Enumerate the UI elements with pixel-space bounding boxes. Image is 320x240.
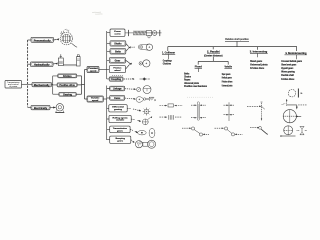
- svg-text:Worm gearing: Worm gearing: [281, 72, 295, 74]
- svg-text:Universal joints: Universal joints: [184, 82, 200, 85]
- svg-text:Ropes: Ropes: [184, 80, 191, 82]
- node list variable: [222, 74, 233, 88]
- wire dash b11 to ellipse icon: [130, 129, 138, 132]
- icon linkage crank: [137, 86, 151, 94]
- icon branch3 intersecting shafts: [247, 102, 265, 120]
- svg-text:Gear: Gear: [115, 60, 121, 63]
- svg-text:Helical gears: Helical gears: [222, 78, 232, 80]
- box b11 Transmission gears: [110, 126, 130, 133]
- svg-text:variable: variable: [116, 120, 125, 122]
- svg-text:Pneumatically: Pneumatically: [34, 39, 51, 42]
- box b9 Differential gearing: [109, 105, 127, 112]
- svg-text:Hypoid gears: Hypoid gears: [281, 68, 294, 70]
- icon A2 clutch: [159, 115, 182, 120]
- svg-text:gears: gears: [117, 130, 124, 132]
- box b12 Bumping gears: [110, 136, 131, 143]
- wire trunkB stubs: [107, 89, 110, 140]
- svg-text:Friction: Friction: [63, 75, 72, 78]
- box b3 Belts: [110, 49, 126, 54]
- svg-text:Clutches: Clutches: [163, 63, 172, 66]
- box Friction: [58, 74, 77, 78]
- box Electrically: [31, 105, 50, 110]
- box root Transmission and control of power: [5, 81, 22, 89]
- box b7 Linkage: [110, 86, 125, 91]
- svg-text:Friction drives: Friction drives: [281, 78, 295, 81]
- node label 4. Nonintersecting: [285, 52, 307, 55]
- box b5 Friction wheel: [109, 66, 125, 73]
- wire drop branch2: [212, 47, 214, 50]
- icon cam and follower: [136, 97, 154, 103]
- svg-text:Universal joints: Universal joints: [250, 63, 268, 66]
- wire branch2 split: [198, 57, 228, 65]
- svg-text:Chains: Chains: [184, 77, 192, 79]
- wire trunk to electrically: [28, 106, 31, 108]
- node label 2. Parallel: [204, 50, 223, 57]
- node list branch1: [163, 60, 173, 66]
- svg-text:Flexible shaft: Flexible shaft: [281, 74, 294, 77]
- svg-text:Friction drives: Friction drives: [222, 81, 233, 84]
- node label Variable: [224, 66, 232, 69]
- wire trunk to pneumatically: [28, 39, 31, 41]
- box b8 Cams: [110, 96, 125, 101]
- icon D3 worm and crossed helical: [280, 126, 307, 137]
- svg-text:Cams: Cams: [114, 98, 121, 100]
- svg-text:wheel: wheel: [114, 70, 120, 72]
- node label 3. Intersecting: [250, 51, 268, 54]
- box Hydraulically: [31, 62, 54, 67]
- icon electric motor: [55, 104, 64, 113]
- wire trunkA: [106, 31, 108, 79]
- svg-text:Belts: Belts: [115, 51, 122, 54]
- box b1 Power screw: [110, 29, 125, 36]
- svg-text:Mechanically: Mechanically: [34, 84, 50, 87]
- svg-text:Friction discs: Friction discs: [250, 67, 265, 70]
- node list branch4: [281, 61, 302, 81]
- box b6 Coupling: [109, 77, 123, 81]
- svg-text:gears: gears: [117, 140, 124, 142]
- svg-text:(Center distance): (Center distance): [204, 54, 223, 57]
- svg-text:Fixed: Fixed: [195, 66, 203, 69]
- wire trunk to hydraulically: [28, 63, 31, 65]
- box Variable speed: [87, 96, 103, 102]
- icon C1 parallel shafts line: [224, 102, 235, 121]
- icon belt drive: [138, 44, 152, 50]
- svg-text:speed: speed: [92, 100, 99, 102]
- wire drop branch1: [167, 47, 169, 51]
- wire root to trunk: [22, 83, 33, 85]
- icon geneva mechanism: [135, 140, 155, 148]
- box Mechanically: [32, 82, 52, 87]
- icon hydraulic cylinders: [58, 54, 80, 66]
- icon elliptical gears: [138, 128, 155, 137]
- icon B1 parallel shafts capsule: [191, 102, 206, 120]
- svg-text:Linkage: Linkage: [113, 89, 122, 91]
- wire dash b8 to cam icon: [125, 98, 136, 99]
- wire dash b7 to linkage icon: [125, 89, 136, 90]
- wire electrically to motor icon: [50, 107, 55, 108]
- wire b4 b5 merge arrow: [126, 60, 132, 69]
- icon D1 circle and bar: [288, 89, 302, 98]
- svg-text:Universal joints: Universal joints: [222, 84, 233, 87]
- wire drop branch3: [257, 47, 259, 50]
- wire mechanically bracket right: [76, 70, 87, 100]
- svg-text:Skew bevel gears: Skew bevel gears: [281, 64, 297, 66]
- svg-text:Hydraulically: Hydraulically: [34, 64, 50, 67]
- wire dash b10 to variator icon: [131, 119, 141, 122]
- wire title drop: [236, 41, 238, 46]
- icon A1 coupling rigid: [159, 104, 182, 107]
- icon D2 worm wheel: [282, 99, 307, 123]
- svg-text:Bevel gears: Bevel gears: [250, 61, 263, 63]
- icon power screw: [125, 30, 162, 38]
- node list branch3: [250, 61, 268, 70]
- icon link1 universal joint: [182, 127, 209, 136]
- icon variator circle with arrow: [142, 117, 152, 125]
- wire drop branch4: [295, 47, 297, 51]
- wire dash b12 to geneva icon: [131, 140, 135, 143]
- box Gearing: [59, 92, 76, 96]
- svg-text:4. Nonintersecting: 4. Nonintersecting: [285, 52, 307, 55]
- box Pneumatically: [31, 37, 54, 42]
- svg-text:gearing: gearing: [114, 109, 123, 111]
- box b2 Shafts: [110, 41, 126, 46]
- wire constant speed to trunkA: [99, 69, 107, 71]
- box Positive drive: [57, 83, 77, 87]
- wire dash b9 to star icon: [127, 108, 141, 111]
- dashes above b6: [112, 75, 123, 77]
- wire hydraulically to cylinder icon: [53, 63, 57, 64]
- svg-text:Variable: Variable: [225, 66, 233, 69]
- wire dash to belt icon: [132, 46, 136, 48]
- wire fixed stub: [197, 68, 199, 72]
- wire variable speed to trunkB: [103, 98, 106, 100]
- svg-text:Positive drive: Positive drive: [59, 84, 75, 87]
- node list fixed: [184, 72, 208, 88]
- icon coupling: [140, 78, 151, 81]
- wire dash b6 to coupling icon: [124, 79, 135, 80]
- icon pneumatic fan: [60, 29, 77, 47]
- box b4 Gear: [109, 58, 125, 63]
- wire trunk vertical dashed: [27, 40, 29, 107]
- svg-text:Shafts: Shafts: [114, 43, 122, 46]
- svg-text:Crossed helical gears: Crossed helical gears: [281, 61, 302, 63]
- wire trunkB: [106, 86, 108, 141]
- box Constant speed: [87, 67, 99, 73]
- node title Relative shaft position: [225, 38, 249, 42]
- svg-text:Spur gears: Spur gears: [222, 74, 231, 76]
- wire pneumatically to fan icon: [54, 39, 59, 40]
- wire branch4 stub: [295, 55, 297, 60]
- smudge top: [92, 12, 103, 14]
- wire b2 b3 merge arrow: [126, 44, 131, 52]
- box b10 Rolling contact variable: [109, 115, 131, 122]
- svg-text:screw: screw: [114, 33, 121, 35]
- svg-text:Coupling: Coupling: [111, 79, 122, 81]
- svg-text:Gearing: Gearing: [63, 93, 73, 96]
- wire mechanically bracket left: [52, 76, 59, 94]
- wire tree main line: [168, 46, 297, 48]
- svg-text:Relative shaft position: Relative shaft position: [225, 38, 249, 41]
- node label 1. Collinear: [162, 52, 175, 55]
- node label Fixed: [195, 66, 203, 69]
- speck row: [187, 96, 214, 98]
- icon gear pair: [139, 60, 150, 67]
- wire branch3 stub: [257, 53, 259, 57]
- icon link3 flexible shaft: [250, 126, 268, 134]
- icon differential star: [143, 108, 151, 116]
- svg-text:of power: of power: [9, 86, 17, 88]
- svg-text:speed: speed: [90, 70, 97, 72]
- icon link2 universal joint: [215, 127, 243, 136]
- svg-text:Positive mechanisms: Positive mechanisms: [184, 85, 208, 88]
- wire branch1 stub: [168, 54, 170, 59]
- svg-text:Electrically: Electrically: [34, 107, 48, 110]
- svg-text:Belts: Belts: [184, 72, 190, 75]
- tick near 155 100: [154, 99, 156, 101]
- wire trunkA stubs: [107, 33, 110, 79]
